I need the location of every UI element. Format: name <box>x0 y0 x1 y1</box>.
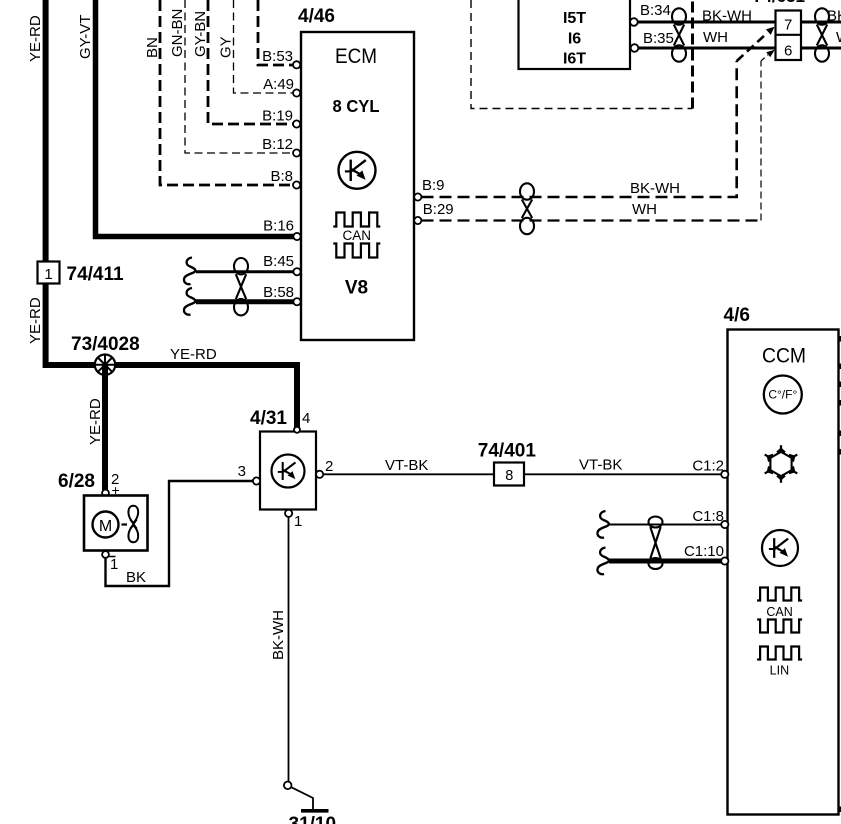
svg-text:I6: I6 <box>568 31 581 48</box>
pin B:45 <box>263 253 300 275</box>
svg-text:B:19: B:19 <box>262 108 293 125</box>
wire BK-WH down <box>288 517 290 782</box>
wire C1:8 <box>609 524 722 526</box>
label 4/31 <box>250 408 287 429</box>
label BK-WH vertical <box>270 610 287 660</box>
svg-text:6: 6 <box>784 43 792 60</box>
svg-text:BK-WH: BK-WH <box>630 180 680 197</box>
wire WH right <box>801 47 841 50</box>
pin C1:10 <box>684 543 728 565</box>
svg-text:WH: WH <box>836 29 841 46</box>
pin B:53 <box>262 48 300 68</box>
svg-text:BK: BK <box>126 569 146 586</box>
label 6/28 <box>58 471 95 492</box>
CCM LIN symbol <box>757 647 802 678</box>
svg-text:6/28: 6/28 <box>58 471 95 492</box>
ECM module box 4/46 <box>301 32 414 340</box>
label YE-RD branch <box>87 398 104 445</box>
CCM module box 4/6 <box>728 330 839 815</box>
CCM CAN symbol <box>757 588 802 633</box>
wire BK-WH dashed <box>422 61 737 197</box>
twisted pair B:45/B:58 <box>234 258 248 315</box>
svg-text:1: 1 <box>110 556 118 573</box>
svg-text:VT-BK: VT-BK <box>579 457 622 474</box>
break squiggle C1:8 <box>597 511 608 538</box>
wire WH dashed <box>422 61 762 221</box>
svg-text:M: M <box>99 518 112 535</box>
ECM CAN symbol <box>333 213 380 258</box>
label GY-VT <box>77 15 94 59</box>
wire C1:10 <box>609 559 722 564</box>
relay K symbol <box>272 455 305 488</box>
label BN <box>144 37 161 58</box>
label 74/401 <box>478 441 537 462</box>
pin 4 of 4/31 <box>294 410 310 433</box>
svg-text:1: 1 <box>294 513 302 530</box>
pin C1:8 <box>692 508 728 528</box>
svg-text:ECM: ECM <box>335 45 377 68</box>
label 74/411 <box>67 264 124 285</box>
motor symbol M <box>93 512 119 538</box>
label VT-BK left <box>385 457 428 474</box>
pin 3 of 4/31 <box>238 463 260 485</box>
svg-text:BN: BN <box>144 37 161 58</box>
svg-text:BK-WH: BK-WH <box>702 8 752 25</box>
svg-text:4: 4 <box>302 410 310 427</box>
pin A:49 <box>263 76 300 97</box>
svg-text:B:9: B:9 <box>422 177 445 194</box>
label YE-RD mid <box>27 297 44 344</box>
svg-text:GY: GY <box>218 36 235 58</box>
wire YE-RD main feed <box>46 0 297 428</box>
svg-text:WH: WH <box>632 201 657 218</box>
break squiggle B:58 <box>184 288 195 315</box>
label 8 CYL <box>333 95 380 116</box>
pin C1:2 <box>692 458 728 478</box>
connector 8 74/401 <box>494 463 524 486</box>
label YE-RD top <box>27 15 44 62</box>
svg-text:CAN: CAN <box>766 605 792 619</box>
ground 31/10 <box>284 782 336 824</box>
svg-text:C1:2: C1:2 <box>692 458 724 475</box>
svg-text:LIN: LIN <box>770 664 789 678</box>
label I6 <box>568 31 581 48</box>
svg-text:B:53: B:53 <box>262 48 293 65</box>
splice 73/4028 <box>95 355 115 375</box>
wire GY dashed <box>234 0 294 93</box>
svg-text:73/4028: 73/4028 <box>71 334 140 355</box>
label BK-WH right clipped <box>827 8 841 25</box>
label ECM <box>335 45 377 68</box>
svg-text:1: 1 <box>44 266 52 283</box>
wire BK <box>106 481 254 586</box>
fan motor box 6/28 <box>84 496 148 551</box>
svg-text:B:45: B:45 <box>263 253 294 270</box>
pin B:16 <box>263 218 300 241</box>
twisted pair right edge <box>815 8 829 61</box>
wire B:45 <box>196 270 294 273</box>
wire B:58 <box>196 299 294 304</box>
svg-text:4/46: 4/46 <box>298 6 335 27</box>
svg-text:8 CYL: 8 CYL <box>333 95 380 116</box>
svg-text:BK-WH: BK-WH <box>827 8 841 25</box>
wire BN dashed <box>160 0 293 185</box>
motor dash <box>122 523 128 525</box>
pin B:35 <box>631 30 674 52</box>
svg-text:C°/F°: C°/F° <box>768 388 797 402</box>
CCM right edge pin stubs <box>839 336 841 812</box>
label I6T <box>563 51 586 68</box>
svg-text:8: 8 <box>505 468 513 484</box>
svg-text:B:12: B:12 <box>262 136 293 153</box>
relay box 4/31 <box>260 432 316 510</box>
pin 1 of 6/28 <box>102 551 118 573</box>
label V8 <box>345 278 368 299</box>
connector 1 74/411 <box>38 262 60 284</box>
svg-text:GY-BN: GY-BN <box>192 11 209 57</box>
label VT-BK right <box>579 457 622 474</box>
svg-text:YE-RD: YE-RD <box>170 346 217 363</box>
wire GY-VT <box>96 0 295 237</box>
svg-text:A:49: A:49 <box>263 76 294 93</box>
dashed arrow to pin 6 <box>761 50 775 61</box>
label I5T <box>563 10 586 27</box>
pin B:8 <box>270 168 300 189</box>
svg-text:4/6: 4/6 <box>724 305 750 326</box>
wire WH B:35 <box>638 47 776 50</box>
svg-text:VT-BK: VT-BK <box>385 457 428 474</box>
label GY-BN <box>192 11 209 57</box>
svg-text:74/411: 74/411 <box>67 264 124 285</box>
label 4/46 <box>298 6 335 27</box>
label WH mid <box>632 201 657 218</box>
svg-text:B:34: B:34 <box>640 2 671 19</box>
wire BK-WH B:34 <box>638 21 776 24</box>
wire BK-WH right <box>801 21 841 24</box>
svg-text:3: 3 <box>238 463 246 480</box>
break squiggle C1:10 <box>597 548 608 575</box>
svg-text:B:29: B:29 <box>423 201 454 218</box>
svg-text:7: 7 <box>784 17 792 34</box>
pin B:29 <box>414 201 453 224</box>
svg-text:4/31: 4/31 <box>250 408 287 429</box>
pin B:9 <box>414 177 444 201</box>
label WH top <box>703 29 728 46</box>
label 73/4028 <box>71 334 140 355</box>
wire YE-RD to motor <box>102 365 108 490</box>
svg-text:B:8: B:8 <box>270 168 293 185</box>
break squiggle B:45 <box>184 258 195 285</box>
variant dashed box <box>471 0 693 109</box>
pin B:34 <box>630 2 671 26</box>
wire GN-BN dashed <box>185 0 293 153</box>
label GY <box>218 36 235 58</box>
label BK <box>126 569 146 586</box>
svg-text:B:35: B:35 <box>643 30 674 47</box>
svg-text:I6T: I6T <box>563 51 586 68</box>
svg-text:C1:8: C1:8 <box>692 508 724 525</box>
connector pins 7/6 <box>776 11 802 61</box>
svg-text:2: 2 <box>325 458 333 475</box>
svg-text:CAN: CAN <box>343 228 372 243</box>
svg-text:74/631: 74/631 <box>753 0 805 6</box>
pin 2 of 6/28 <box>102 471 120 498</box>
pin 2 of 4/31 <box>316 458 333 478</box>
engine variant box <box>519 0 631 69</box>
svg-text:YE-RD: YE-RD <box>87 398 104 445</box>
label GN-BN <box>169 9 186 57</box>
CCM snowflake symbol <box>765 445 798 483</box>
twisted pair C1:8/C1:10 <box>649 517 663 570</box>
label 4/6 <box>724 305 750 326</box>
svg-text:YE-RD: YE-RD <box>27 15 44 62</box>
svg-text:CCM: CCM <box>762 344 806 368</box>
svg-text:GN-BN: GN-BN <box>169 9 186 57</box>
svg-text:YE-RD: YE-RD <box>27 297 44 344</box>
dashed arrow to pin 7 <box>737 27 775 61</box>
svg-text:C1:10: C1:10 <box>684 543 724 560</box>
label BK-WH mid <box>630 180 680 197</box>
svg-text:B:16: B:16 <box>263 218 294 235</box>
label YE-RD horizontal <box>170 346 217 363</box>
CCM thermometer symbol <box>764 376 802 414</box>
wire VT-BK <box>324 473 723 475</box>
twisted pair B:34/B:35 <box>672 8 686 61</box>
svg-text:31/10: 31/10 <box>289 814 337 824</box>
svg-text:I5T: I5T <box>563 10 586 27</box>
label CCM <box>762 344 806 368</box>
label BK-WH top <box>702 8 752 25</box>
svg-text:WH: WH <box>703 29 728 46</box>
svg-text:GY-VT: GY-VT <box>77 15 94 59</box>
svg-text:74/401: 74/401 <box>478 441 537 462</box>
label clipped above connector <box>753 0 805 6</box>
svg-text:BK-WH: BK-WH <box>270 610 287 660</box>
pin B:19 <box>262 108 300 128</box>
svg-text:V8: V8 <box>345 278 368 299</box>
pin B:58 <box>263 284 300 305</box>
label WH right clipped <box>836 29 841 46</box>
ECM K symbol <box>339 152 376 189</box>
wire to B:53 dashed <box>258 0 293 65</box>
twisted pair B:9/B:29 <box>520 183 534 234</box>
pin 1 of 4/31 <box>285 510 302 530</box>
fan blade symbol <box>128 506 138 542</box>
svg-text:B:58: B:58 <box>263 284 294 301</box>
wire GY-BN dashed <box>208 0 293 124</box>
CCM K symbol <box>762 530 798 566</box>
pin B:12 <box>262 136 300 157</box>
